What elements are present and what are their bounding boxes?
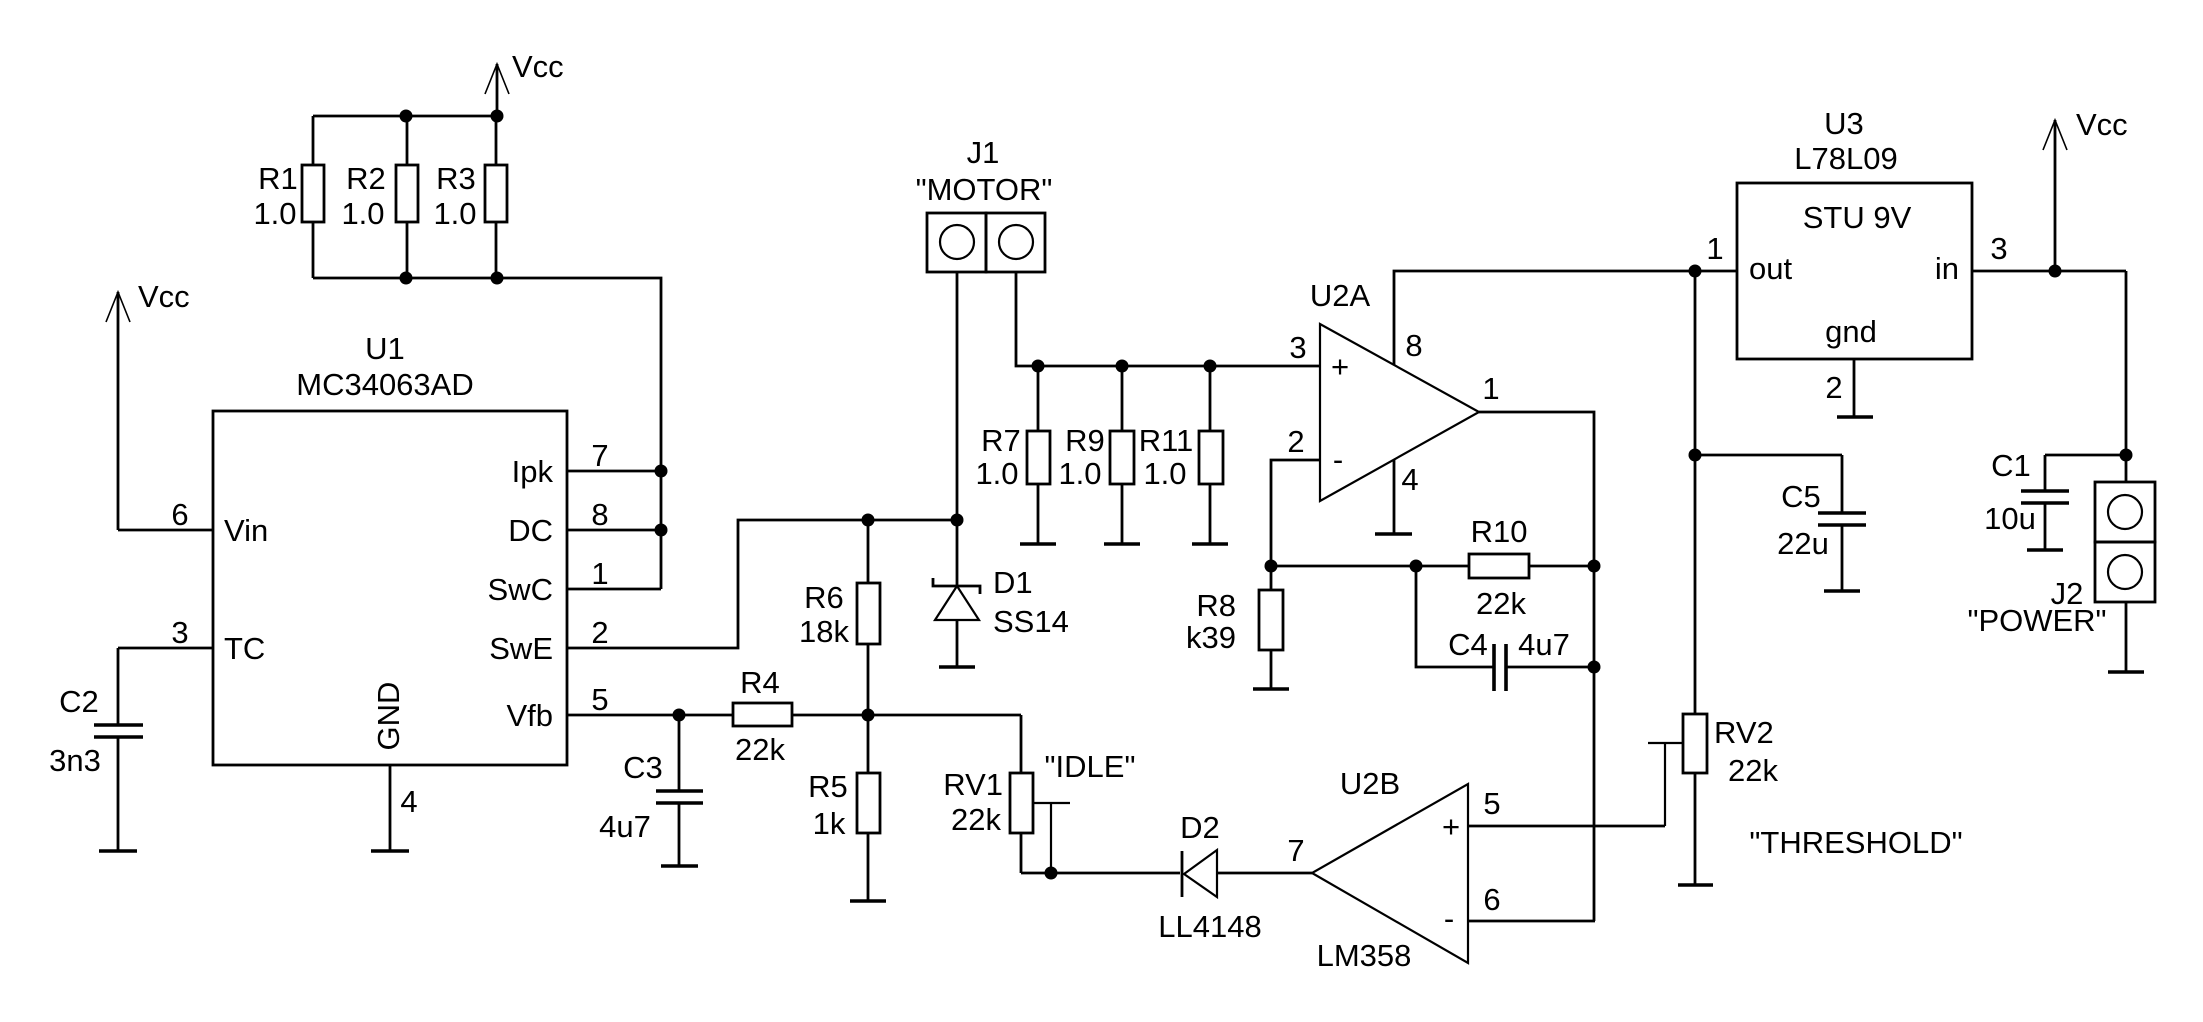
svg-text:DC: DC <box>508 513 553 548</box>
svg-text:C5: C5 <box>1781 479 1821 514</box>
wire J1 right pin to rail <box>1016 272 1320 366</box>
wire feedback node <box>1271 565 1469 568</box>
resistor R5 <box>808 715 880 901</box>
connector J1 MOTOR <box>916 135 1053 272</box>
junction dots motor rail <box>1032 360 1217 373</box>
svg-text:RV1: RV1 <box>943 767 1003 802</box>
svg-text:gnd: gnd <box>1825 314 1877 349</box>
ground (R9) <box>1104 542 1140 546</box>
resistor R7 <box>975 366 1050 544</box>
svg-text:22u: 22u <box>1777 526 1829 561</box>
capacitor C2 <box>49 648 143 851</box>
ground (C1) <box>2027 548 2063 552</box>
wire Vfb pin 5 <box>567 682 733 717</box>
junction dots Vfb node <box>673 709 875 722</box>
op-amp U2B <box>1312 766 1468 973</box>
IC U1 MC34063AD <box>213 331 567 765</box>
ground (C3) <box>661 864 698 868</box>
svg-text:1.0: 1.0 <box>253 196 296 231</box>
svg-text:R11: R11 <box>1139 423 1194 458</box>
svg-text:+: + <box>1442 809 1460 844</box>
wire RV1 to D2 <box>1021 872 1180 875</box>
junction dots SwE node <box>862 514 964 527</box>
svg-text:Vin: Vin <box>224 513 268 548</box>
svg-text:-: - <box>1333 442 1343 477</box>
svg-text:R6: R6 <box>804 580 844 615</box>
junction dots R1R2R3 rails <box>400 110 504 285</box>
wire J1 left pin to SwE node <box>956 272 959 586</box>
svg-text:1: 1 <box>591 556 608 591</box>
capacitor C5 <box>1695 455 1866 591</box>
svg-text:Vfb: Vfb <box>506 698 553 733</box>
wire U2A pin 2 <box>1271 424 1320 590</box>
wire Vin pin 6 <box>118 497 213 532</box>
svg-text:4: 4 <box>400 784 417 819</box>
svg-text:R2: R2 <box>346 161 386 196</box>
svg-text:C3: C3 <box>623 750 663 785</box>
svg-text:Vcc: Vcc <box>2076 107 2128 142</box>
wire Vcc input riser <box>2125 271 2128 482</box>
ground (U1 pin 4) <box>371 849 409 853</box>
capacitor C1 <box>1984 448 2126 550</box>
svg-text:MC34063AD: MC34063AD <box>296 367 473 402</box>
resistor R6 <box>799 520 880 715</box>
svg-text:U1: U1 <box>365 331 405 366</box>
resistor R8 <box>1186 588 1283 689</box>
wire SwC pin 1 <box>567 556 661 591</box>
svg-text:5: 5 <box>1483 786 1500 821</box>
ground (U3 pin 2) <box>1837 415 1873 419</box>
svg-text:R7: R7 <box>981 423 1021 458</box>
power symbol Vcc (left, to Vin) <box>106 279 190 530</box>
svg-text:D2: D2 <box>1180 810 1220 845</box>
svg-text:"IDLE": "IDLE" <box>1045 749 1136 784</box>
ground (D1) <box>939 665 975 669</box>
svg-text:-: - <box>1444 901 1454 936</box>
op-amp U2A <box>1310 278 1479 501</box>
svg-text:7: 7 <box>1287 833 1304 868</box>
wire U3 pin 2 <box>1825 359 1854 417</box>
diode D1 SS14 <box>933 565 1069 667</box>
svg-text:1: 1 <box>1706 231 1723 266</box>
ground (U2A pin 4) <box>1375 532 1412 536</box>
svg-text:3: 3 <box>1289 330 1306 365</box>
wire SwE pin 2 <box>567 520 957 650</box>
svg-text:6: 6 <box>1483 882 1500 917</box>
wire U2B pin 5 <box>1468 786 1665 826</box>
svg-text:22k: 22k <box>951 802 1001 837</box>
ground (C5) <box>1824 589 1860 593</box>
ground (R11) <box>1192 542 1228 546</box>
ground (C2) <box>99 849 137 853</box>
svg-text:"THRESHOLD": "THRESHOLD" <box>1749 825 1962 860</box>
svg-text:3n3: 3n3 <box>49 743 101 778</box>
svg-text:in: in <box>1935 251 1959 286</box>
svg-text:C2: C2 <box>59 684 99 719</box>
capacitor C3 <box>599 715 703 866</box>
svg-text:U2A: U2A <box>1310 278 1371 313</box>
svg-text:22k: 22k <box>1728 753 1778 788</box>
svg-text:1k: 1k <box>813 806 846 841</box>
resistor R11 <box>1139 366 1223 544</box>
svg-text:C4: C4 <box>1448 627 1488 662</box>
svg-text:R1: R1 <box>258 161 298 196</box>
svg-text:R5: R5 <box>808 769 848 804</box>
junction dots Ipk DC column <box>655 465 668 537</box>
svg-text:22k: 22k <box>1476 586 1526 621</box>
wire bottom rail R1-R3 to Ipk column <box>313 278 661 589</box>
svg-text:out: out <box>1749 251 1792 286</box>
wire U3 pin 3 <box>1972 231 2126 271</box>
resistor R9 <box>1058 366 1134 544</box>
resistor R3 <box>433 116 507 278</box>
svg-text:SS14: SS14 <box>993 604 1069 639</box>
wire GND pin 4 <box>390 765 418 851</box>
svg-text:4u7: 4u7 <box>599 809 651 844</box>
junction dots input node <box>2049 265 2133 462</box>
svg-text:1.0: 1.0 <box>433 196 476 231</box>
svg-text:"MOTOR": "MOTOR" <box>916 172 1053 207</box>
diode D2 LL4148 <box>1158 810 1312 944</box>
ground (RV2) <box>1678 883 1713 887</box>
svg-text:GND: GND <box>371 682 406 751</box>
junction dot RV1 wiper <box>1045 867 1058 880</box>
wire U2A pin 1 output <box>1479 371 1594 921</box>
svg-text:J1: J1 <box>967 135 1000 170</box>
power symbol Vcc (top, above R3) <box>485 49 564 119</box>
svg-text:LM358: LM358 <box>1317 938 1412 973</box>
wire TC pin 3 <box>118 615 213 650</box>
wire U2A pin 4 <box>1394 460 1419 534</box>
ground (R5) <box>850 899 886 903</box>
ground (R7) <box>1020 542 1056 546</box>
svg-text:D1: D1 <box>993 565 1033 600</box>
svg-text:R9: R9 <box>1065 423 1105 458</box>
svg-text:TC: TC <box>224 631 265 666</box>
ground (R8) <box>1253 687 1289 691</box>
svg-text:STU 9V: STU 9V <box>1803 200 1912 235</box>
svg-text:5: 5 <box>591 682 608 717</box>
svg-text:4u7: 4u7 <box>1518 627 1570 662</box>
potentiometer RV1 <box>943 715 1135 873</box>
ground (J2) <box>2108 670 2144 674</box>
svg-text:"POWER": "POWER" <box>1967 603 2106 638</box>
junction dots out node <box>1689 265 1702 462</box>
svg-text:8: 8 <box>591 497 608 532</box>
svg-text:3: 3 <box>171 615 188 650</box>
svg-text:SwC: SwC <box>488 572 553 607</box>
svg-text:18k: 18k <box>799 614 849 649</box>
IC U3 L78L09 <box>1737 106 1972 359</box>
wire top rail R1-R3 <box>313 115 497 118</box>
capacitor C4 <box>1416 566 1594 691</box>
svg-text:8: 8 <box>1405 328 1422 363</box>
svg-text:10u: 10u <box>1984 501 2036 536</box>
svg-text:22k: 22k <box>735 732 785 767</box>
svg-text:k39: k39 <box>1186 620 1236 655</box>
svg-text:L78L09: L78L09 <box>1794 141 1897 176</box>
power symbol Vcc (right) <box>2043 107 2128 271</box>
svg-text:1.0: 1.0 <box>1058 456 1101 491</box>
svg-text:C1: C1 <box>1991 448 2031 483</box>
svg-text:SwE: SwE <box>489 631 553 666</box>
resistor R4 <box>733 665 1021 767</box>
svg-text:R8: R8 <box>1196 588 1236 623</box>
svg-text:1: 1 <box>1482 371 1499 406</box>
svg-text:1.0: 1.0 <box>341 196 384 231</box>
svg-text:2: 2 <box>591 615 608 650</box>
svg-text:2: 2 <box>1825 370 1842 405</box>
potentiometer RV2 <box>1648 271 1778 885</box>
resistor R10 <box>1469 514 1594 621</box>
junction dots feedback <box>1265 560 1601 674</box>
svg-text:1.0: 1.0 <box>1143 456 1186 491</box>
connector J2 POWER <box>1967 482 2155 638</box>
svg-text:Vcc: Vcc <box>512 49 564 84</box>
wire DC pin 8 <box>567 497 661 532</box>
wire U2A pin 8 to V+ <box>1394 271 1737 365</box>
svg-text:LL4148: LL4148 <box>1158 909 1261 944</box>
svg-text:1.0: 1.0 <box>975 456 1018 491</box>
svg-text:7: 7 <box>591 438 608 473</box>
svg-text:4: 4 <box>1401 462 1418 497</box>
svg-text:U3: U3 <box>1824 106 1864 141</box>
svg-text:R3: R3 <box>436 161 476 196</box>
svg-text:R10: R10 <box>1471 514 1528 549</box>
svg-text:U2B: U2B <box>1340 766 1400 801</box>
svg-text:Ipk: Ipk <box>512 454 554 489</box>
resistor R1 <box>253 116 324 278</box>
svg-text:2: 2 <box>1287 424 1304 459</box>
svg-text:R4: R4 <box>740 665 780 700</box>
svg-text:RV2: RV2 <box>1714 715 1774 750</box>
svg-text:Vcc: Vcc <box>138 279 190 314</box>
svg-text:6: 6 <box>171 497 188 532</box>
wire Ipk pin 7 <box>567 438 661 473</box>
wire J2 to ground <box>2125 602 2128 672</box>
wire U2B pin 6 <box>1468 882 1595 921</box>
resistor R2 <box>341 116 418 278</box>
svg-text:+: + <box>1331 349 1349 384</box>
svg-text:3: 3 <box>1990 231 2007 266</box>
